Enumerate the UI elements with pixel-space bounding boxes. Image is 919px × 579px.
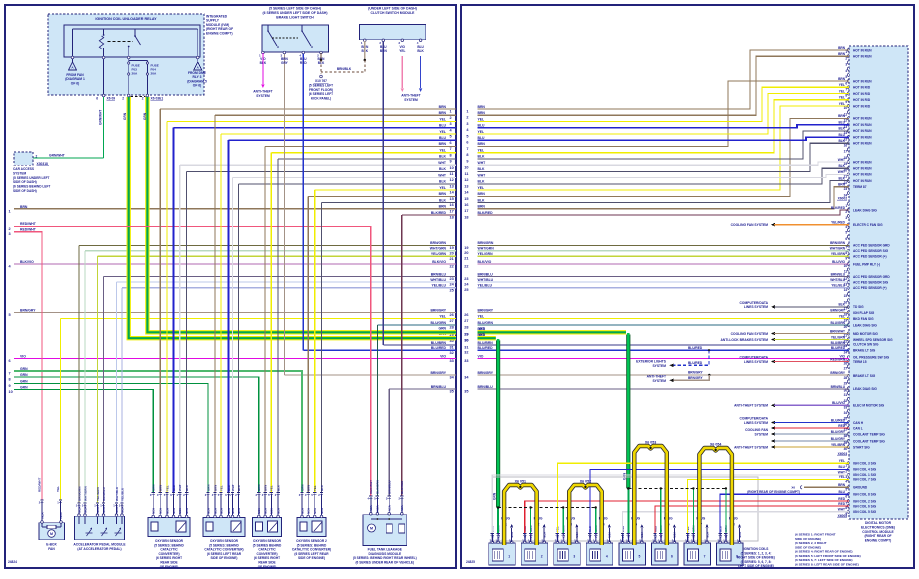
svg-text:YEL/BLU: YEL/BLU (431, 284, 446, 288)
svg-text:SIDE OF ENGINE): SIDE OF ENGINE) (298, 556, 325, 560)
svg-text:BRN: BRN (478, 142, 486, 146)
svg-text:YEL/GRN: YEL/GRN (431, 252, 447, 256)
svg-text:HOT IN RUN: HOT IN RUN (853, 142, 872, 146)
svg-text:9: 9 (845, 256, 847, 260)
svg-text:6: 6 (466, 141, 468, 145)
svg-text:OF ENGINE): OF ENGINE) (258, 565, 277, 569)
svg-text:NCA: NCA (96, 507, 100, 513)
svg-text:BLK: BLK (276, 484, 280, 491)
svg-text:6: 6 (845, 237, 847, 241)
svg-text:22: 22 (450, 265, 454, 269)
svg-text:4: 4 (606, 555, 608, 559)
svg-text:ENGINE COMPT): ENGINE COMPT) (206, 31, 233, 35)
svg-text:BRN: BRN (439, 192, 447, 196)
svg-text:7: 7 (450, 147, 452, 151)
svg-text:18: 18 (464, 215, 468, 219)
svg-text:KICK PANEL): KICK PANEL) (311, 97, 331, 101)
svg-text:HOT IN RUN: HOT IN RUN (853, 179, 872, 183)
svg-text:IGN COIL 2 SIG: IGN COIL 2 SIG (853, 499, 877, 503)
svg-text:BRN: BRN (478, 111, 486, 115)
svg-text:LINES SYSTEM: LINES SYSTEM (744, 360, 768, 364)
svg-text:15: 15 (844, 294, 848, 298)
svg-text:START SIG: START SIG (853, 445, 870, 449)
svg-text:24825: 24825 (466, 560, 475, 564)
svg-text:LINES SYSTEM: LINES SYSTEM (744, 305, 768, 309)
svg-text:YEL: YEL (439, 117, 446, 121)
svg-text:NCA: NCA (213, 508, 217, 514)
svg-text:SYSTEM: SYSTEM (652, 364, 666, 368)
svg-text:BLK: BLK (478, 198, 486, 202)
svg-text:COMPUTER/DATA: COMPUTER/DATA (740, 416, 769, 420)
svg-text:TERM 15: TERM 15 (853, 360, 867, 364)
svg-text:18: 18 (450, 216, 454, 220)
svg-text:27: 27 (450, 319, 454, 323)
svg-text:7: 7 (845, 501, 847, 505)
svg-text:9: 9 (9, 384, 11, 388)
svg-text:E-BOX: E-BOX (46, 543, 57, 547)
svg-text:NCA: NCA (388, 505, 392, 511)
svg-text:BLU: BLU (172, 485, 176, 491)
svg-text:10: 10 (464, 166, 468, 170)
svg-text:WHT: WHT (231, 484, 235, 491)
svg-text:1: 1 (845, 50, 847, 54)
svg-text:NCA: NCA (77, 507, 81, 513)
svg-text:6: 6 (450, 141, 452, 145)
svg-text:BLK/RED: BLK/RED (831, 206, 846, 210)
svg-text:9: 9 (450, 160, 452, 164)
svg-text:NCA: NCA (59, 512, 63, 518)
svg-text:33: 33 (464, 359, 468, 363)
svg-text:YEL/BLU: YEL/BLU (120, 487, 124, 501)
svg-text:8: 8 (845, 251, 847, 255)
svg-text:NCA: NCA (307, 508, 311, 514)
svg-text:GRN: GRN (152, 485, 156, 491)
svg-text:WHT/GRN: WHT/GRN (478, 247, 495, 251)
svg-text:25: 25 (450, 288, 454, 292)
svg-text:31: 31 (450, 346, 454, 350)
svg-text:NCA: NCA (556, 533, 560, 539)
svg-text:19: 19 (450, 246, 454, 250)
svg-text:NCA: NCA (152, 508, 156, 514)
svg-text:GRN: GRN (20, 379, 28, 383)
svg-text:CAN L: CAN L (853, 426, 863, 430)
svg-text:BRN/BLU: BRN/BLU (478, 272, 494, 276)
svg-text:BRN: BRN (213, 485, 217, 491)
svg-text:NCA: NCA (496, 533, 500, 539)
svg-text:HOT IN R/D: HOT IN R/D (853, 86, 871, 90)
svg-text:31: 31 (464, 345, 468, 349)
svg-text:10: 10 (844, 264, 848, 268)
svg-text:10: 10 (844, 106, 848, 110)
svg-text:NCA: NCA (276, 508, 280, 514)
svg-text:NCA: NCA (588, 533, 592, 539)
svg-text:3: 3 (573, 555, 575, 559)
svg-text:6: 6 (9, 359, 11, 363)
svg-text:YEL: YEL (439, 149, 446, 153)
svg-text:IGN COIL 5 SIG: IGN COIL 5 SIG (853, 510, 877, 514)
svg-text:HOT IN RUN: HOT IN RUN (853, 55, 872, 59)
svg-text:GRN: GRN (623, 472, 627, 480)
svg-text:BRN: BRN (838, 77, 846, 81)
svg-text:26: 26 (464, 313, 468, 317)
svg-text:BRN/GRN: BRN/GRN (478, 241, 494, 245)
svg-text:(5 SERIES LEFT SIDE OF DASH): (5 SERIES LEFT SIDE OF DASH) (269, 7, 321, 11)
svg-text:32: 32 (464, 351, 468, 355)
svg-text:BLU/RED: BLU/RED (478, 346, 494, 350)
svg-text:8: 8 (845, 94, 847, 98)
svg-text:BKD FAN SIG: BKD FAN SIG (853, 317, 874, 321)
svg-text:OF 6): OF 6) (71, 81, 79, 85)
svg-text:HOT IN RUN: HOT IN RUN (853, 160, 872, 164)
svg-text:BRN/GRY: BRN/GRY (478, 308, 494, 312)
svg-text:BRN: BRN (838, 183, 846, 187)
svg-text:COMPUTER/DATA: COMPUTER/DATA (740, 355, 769, 359)
svg-text:NCA: NCA (120, 507, 124, 513)
svg-text:16: 16 (464, 203, 468, 207)
svg-text:NCA: NCA (263, 508, 267, 514)
svg-text:FAN: FAN (48, 547, 55, 551)
svg-text:NCA: NCA (562, 533, 566, 539)
svg-text:(UNDER LEFT SIDE OF DASH): (UNDER LEFT SIDE OF DASH) (368, 7, 417, 11)
svg-text:VIO: VIO (440, 354, 446, 358)
svg-text:X6002: X6002 (838, 197, 848, 201)
svg-text:SIDE OF DASH): SIDE OF DASH) (13, 180, 37, 184)
svg-text:ANTI-THEFT: ANTI-THEFT (647, 375, 666, 379)
svg-text:2: 2 (845, 210, 847, 214)
svg-text:BLU: BLU (838, 465, 845, 469)
svg-text:RED: RED (300, 61, 307, 65)
svg-text:NCA: NCA (185, 508, 189, 514)
svg-text:RED/WHT: RED/WHT (369, 480, 373, 494)
svg-text:BLK: BLK (838, 176, 845, 180)
svg-text:2: 2 (142, 97, 144, 101)
svg-text:NCA: NCA (206, 508, 210, 514)
svg-text:13: 13 (450, 185, 454, 189)
svg-text:7: 7 (704, 555, 706, 559)
svg-text:YEL: YEL (399, 49, 405, 53)
svg-text:WHT/BLU: WHT/BLU (830, 278, 845, 282)
svg-text:BLU/RED: BLU/RED (431, 346, 447, 350)
svg-text:OF ENGINE): OF ENGINE) (160, 565, 179, 569)
svg-text:COOLING FAN: COOLING FAN (745, 428, 769, 432)
svg-text:ACC PED SENSOR SIG: ACC PED SENSOR SIG (853, 280, 889, 284)
svg-text:GRN: GRN (493, 492, 497, 500)
svg-text:BRN/GRN: BRN/GRN (430, 241, 446, 245)
svg-text:20: 20 (464, 251, 468, 255)
svg-text:BLU/GRN: BLU/GRN (478, 321, 494, 325)
svg-text:22: 22 (464, 264, 468, 268)
svg-text:HOT IN RUN: HOT IN RUN (853, 173, 872, 177)
svg-text:14: 14 (844, 288, 848, 292)
svg-text:GRN: GRN (20, 373, 28, 377)
svg-text:BRN/BLU: BRN/BLU (831, 272, 846, 276)
svg-text:LINES SYSTEM: LINES SYSTEM (744, 421, 768, 425)
svg-text:BLK: BLK (478, 180, 486, 184)
svg-text:SYSTEM: SYSTEM (754, 432, 768, 436)
svg-text:COOLANT TEMP SIG: COOLANT TEMP SIG (853, 439, 885, 443)
svg-text:5: 5 (845, 230, 847, 234)
svg-text:29: 29 (464, 333, 468, 337)
svg-text:33: 33 (450, 359, 454, 363)
svg-text:BLU: BLU (838, 133, 845, 137)
svg-text:ACC PED SENSOR GRD: ACC PED SENSOR GRD (853, 244, 890, 248)
svg-text:BRN/GRY: BRN/GRY (430, 371, 446, 375)
svg-text:(6 SERIES UNDER LEFT SIDE OF D: (6 SERIES UNDER LEFT SIDE OF DASH) (263, 11, 328, 15)
svg-text:BLU: BLU (838, 120, 845, 124)
svg-text:25: 25 (464, 288, 468, 292)
svg-text:3: 3 (466, 122, 468, 126)
svg-text:YEL: YEL (270, 485, 274, 491)
svg-text:ANTI-THEFT SYSTEM: ANTI-THEFT SYSTEM (734, 404, 768, 408)
svg-text:3: 3 (845, 475, 847, 479)
svg-text:8: 8 (466, 153, 468, 157)
svg-text:GRN: GRN (206, 485, 210, 491)
svg-text:IGNITION COIL UNLOADER RELAY: IGNITION COIL UNLOADER RELAY (95, 17, 157, 21)
svg-text:26: 26 (844, 362, 848, 366)
svg-text:NCA: NCA (320, 508, 324, 514)
svg-text:26: 26 (450, 313, 454, 317)
svg-text:BRN: BRN (439, 205, 447, 209)
svg-text:BRN/GRY: BRN/GRY (478, 371, 494, 375)
svg-text:4: 4 (845, 69, 847, 73)
svg-text:WHT: WHT (838, 158, 845, 162)
svg-text:NCA: NCA (237, 508, 241, 514)
svg-text:COOLING FAN SYSTEM: COOLING FAN SYSTEM (731, 332, 769, 336)
svg-text:16: 16 (844, 144, 848, 148)
svg-text:YEL: YEL (478, 117, 485, 121)
svg-text:BRN/GRY: BRN/GRY (688, 370, 703, 374)
svg-text:NCA: NCA (178, 508, 182, 514)
svg-text:16: 16 (450, 203, 454, 207)
svg-text:BRN: BRN (159, 485, 163, 491)
svg-text:YEL/GRN: YEL/GRN (96, 486, 100, 501)
svg-text:BLU/RED: BLU/RED (688, 361, 703, 365)
svg-text:YEL: YEL (839, 89, 845, 93)
svg-text:NCA: NCA (718, 533, 722, 539)
svg-text:ANTI-THEFT: ANTI-THEFT (401, 94, 420, 98)
svg-text:WHT: WHT (838, 471, 845, 475)
svg-text:BRAKE LT SIG: BRAKE LT SIG (853, 374, 876, 378)
svg-text:YEL: YEL (478, 130, 485, 134)
svg-text:X10 767: X10 767 (315, 79, 327, 83)
svg-text:8: 8 (845, 506, 847, 510)
svg-text:20: 20 (450, 251, 454, 255)
svg-text:5: 5 (845, 488, 847, 492)
svg-text:X6005: X6005 (838, 514, 848, 518)
svg-text:YEL: YEL (839, 96, 845, 100)
svg-text:3: 3 (450, 122, 452, 126)
svg-text:BLK: BLK (838, 303, 845, 307)
svg-text:YEL/BLU: YEL/BLU (831, 284, 845, 288)
svg-text:BRN/GRN: BRN/GRN (830, 241, 846, 245)
svg-text:GRY: GRY (281, 61, 289, 65)
svg-text:BLU/RED: BLU/RED (688, 346, 703, 350)
svg-text:BLK: BLK (439, 180, 447, 184)
svg-text:NCA: NCA (653, 533, 657, 539)
svg-text:3: 3 (9, 232, 11, 236)
svg-text:LEFT SIDE OF ENGINE): LEFT SIDE OF ENGINE) (738, 564, 774, 568)
svg-text:21: 21 (450, 257, 454, 261)
svg-text:SIDE OF DASH): SIDE OF DASH) (13, 189, 37, 193)
svg-text:NCA: NCA (313, 508, 317, 514)
svg-text:17: 17 (464, 209, 468, 213)
svg-text:5: 5 (638, 555, 640, 559)
svg-text:WHT: WHT (438, 161, 447, 165)
svg-text:GRN/WHT: GRN/WHT (49, 154, 65, 158)
svg-text:WHT/BLU: WHT/BLU (115, 486, 119, 501)
svg-text:LEAK DIAG SIG: LEAK DIAG SIG (853, 208, 877, 212)
svg-text:BRN: BRN (380, 49, 388, 53)
svg-text:HOT IN RUN: HOT IN RUN (853, 117, 872, 121)
svg-text:GRN: GRN (123, 112, 127, 120)
svg-text:YEL: YEL (839, 475, 845, 479)
svg-text:BRN/GRY: BRN/GRY (20, 308, 36, 312)
svg-text:BLU/VIO: BLU/VIO (832, 401, 845, 405)
svg-text:SYSTEM: SYSTEM (13, 171, 26, 175)
svg-text:(6 SERIES UNDER REAR OF VEHICL: (6 SERIES UNDER REAR OF VEHICLE) (355, 560, 414, 564)
svg-text:HOT IN RUN: HOT IN RUN (853, 48, 872, 52)
svg-text:WHT/GRN: WHT/GRN (830, 247, 846, 251)
svg-text:23: 23 (464, 277, 468, 281)
svg-text:BLK: BLK (838, 164, 845, 168)
svg-text:BRN/GRN: BRN/GRN (77, 486, 81, 501)
svg-text:28: 28 (450, 326, 454, 330)
svg-text:HOT IN R/D: HOT IN R/D (853, 104, 871, 108)
svg-text:NCA: NCA (102, 507, 106, 513)
svg-text:BRN/BLK: BRN/BLK (337, 67, 352, 71)
svg-text:YEL: YEL (478, 149, 485, 153)
svg-text:RED/WHT: RED/WHT (20, 222, 37, 226)
svg-text:COOLANT TEMP SIG: COOLANT TEMP SIG (853, 432, 885, 436)
svg-text:LEAK DIAG SIG: LEAK DIAG SIG (853, 387, 877, 391)
svg-text:BRN/BLU: BRN/BLU (831, 385, 846, 389)
svg-text:RED: RED (838, 424, 845, 428)
svg-text:WHT: WHT (838, 508, 845, 512)
svg-text:BRN: BRN (838, 52, 846, 56)
svg-text:NCA: NCA (83, 507, 87, 513)
svg-text:GRN: GRN (478, 327, 486, 331)
svg-text:19: 19 (464, 246, 468, 250)
svg-text:NCA: NCA (219, 508, 223, 514)
svg-text:BRN: BRN (20, 205, 28, 209)
svg-text:WHT: WHT (838, 170, 845, 174)
svg-text:BRAKE LIGHT SWITCH: BRAKE LIGHT SWITCH (276, 16, 314, 20)
svg-text:BRN/BLU: BRN/BLU (102, 486, 106, 501)
svg-text:1: 1 (845, 463, 847, 467)
svg-text:28: 28 (464, 325, 468, 329)
svg-text:NCA: NCA (369, 505, 373, 511)
svg-text:BRN: BRN (478, 205, 486, 209)
svg-text:BRN/GRY: BRN/GRY (830, 308, 845, 312)
svg-text:ACCELERATOR PEDAL MODULE: ACCELERATOR PEDAL MODULE (73, 543, 126, 547)
svg-text:NCA: NCA (400, 505, 404, 511)
svg-text:30: 30 (464, 339, 468, 343)
svg-text:35: 35 (464, 389, 468, 393)
svg-text:NCA: NCA (376, 505, 380, 511)
svg-text:ELEC M MOTOR SIG: ELEC M MOTOR SIG (853, 404, 885, 408)
svg-text:HOT IN RUN: HOT IN RUN (853, 135, 872, 139)
svg-text:32: 32 (450, 351, 454, 355)
svg-text:BLU/RED: BLU/RED (400, 480, 404, 494)
svg-text:3: 3 (845, 63, 847, 67)
svg-text:BRN: BRN (478, 192, 486, 196)
svg-text:YEL: YEL (165, 485, 169, 491)
svg-text:BLK: BLK (417, 49, 424, 53)
svg-text:CLUTCH SW SIG: CLUTCH SW SIG (853, 342, 879, 346)
svg-text:NCA: NCA (159, 508, 163, 514)
svg-text:BRN: BRN (307, 485, 311, 491)
svg-text:YEL: YEL (439, 130, 446, 134)
svg-text:HOT IN RUN: HOT IN RUN (853, 167, 872, 171)
svg-text:SYSTEM: SYSTEM (256, 94, 270, 98)
svg-text:9: 9 (845, 100, 847, 104)
svg-text:MID MOTOR SIG: MID MOTOR SIG (853, 332, 878, 336)
svg-text:BRN/GRY: BRN/GRY (688, 376, 703, 380)
svg-text:28: 28 (844, 376, 848, 380)
svg-text:9: 9 (466, 159, 468, 163)
svg-text:(AT ACCELERATOR PEDAL): (AT ACCELERATOR PEDAL) (77, 547, 121, 551)
svg-text:BLK: BLK (237, 484, 241, 491)
svg-text:7: 7 (845, 88, 847, 92)
svg-text:YEL/GRN: YEL/GRN (831, 335, 846, 339)
svg-text:BLU: BLU (439, 136, 447, 140)
svg-text:ELECTR C FAN SIG: ELECTR C FAN SIG (853, 223, 883, 227)
svg-text:2: 2 (450, 116, 452, 120)
svg-text:1: 1 (9, 210, 11, 214)
svg-text:WHT: WHT (438, 173, 447, 177)
svg-text:6: 6 (671, 555, 673, 559)
svg-text:6: 6 (845, 81, 847, 85)
svg-text:ION FLAP SIG: ION FLAP SIG (853, 311, 875, 315)
svg-text:2: 2 (36, 155, 38, 159)
svg-text:X6 052: X6 052 (580, 479, 591, 483)
svg-text:CAR ACCESS: CAR ACCESS (13, 167, 34, 171)
svg-text:12: 12 (450, 178, 454, 182)
svg-text:6: 6 (96, 97, 98, 101)
svg-text:NCA: NCA (627, 533, 631, 539)
svg-text:NCA: NCA (231, 508, 235, 514)
svg-text:ACC PED SENSOR (+): ACC PED SENSOR (+) (853, 255, 887, 259)
svg-text:1: 1 (466, 109, 468, 113)
svg-text:NCA: NCA (659, 533, 663, 539)
svg-text:IGN COIL 8 SIG: IGN COIL 8 SIG (853, 493, 877, 497)
svg-text:X30318: X30318 (37, 162, 49, 166)
svg-text:ACC PED SENSOR GRD: ACC PED SENSOR GRD (853, 275, 890, 279)
svg-text:2: 2 (122, 97, 124, 101)
svg-text:NCA: NCA (40, 512, 44, 518)
svg-text:3: 3 (845, 216, 847, 220)
svg-text:10: 10 (9, 390, 13, 394)
svg-text:BLK: BLK (439, 155, 447, 159)
svg-text:LEAK DIAG SIG: LEAK DIAG SIG (853, 323, 877, 327)
svg-text:(RIGHT REAR OF: (RIGHT REAR OF (864, 534, 891, 538)
svg-text:BRN/BLU: BRN/BLU (431, 385, 447, 389)
svg-text:6: 6 (845, 495, 847, 499)
svg-text:20A: 20A (132, 71, 138, 75)
svg-text:BLK: BLK (320, 484, 324, 491)
svg-text:WHT: WHT (478, 173, 487, 177)
svg-text:COOLING FAN SYSTEM: COOLING FAN SYSTEM (731, 223, 769, 227)
svg-text:YEL: YEL (478, 186, 485, 190)
svg-text:2: 2 (541, 555, 543, 559)
svg-text:YEL: YEL (839, 459, 845, 463)
svg-text:YEL: YEL (56, 486, 60, 492)
svg-text:BRN: BRN (838, 483, 846, 487)
svg-text:CAN H: CAN H (853, 421, 864, 425)
svg-text:X6003: X6003 (838, 452, 848, 456)
svg-text:TD SIG: TD SIG (853, 305, 864, 309)
svg-text:YEL: YEL (478, 314, 485, 318)
